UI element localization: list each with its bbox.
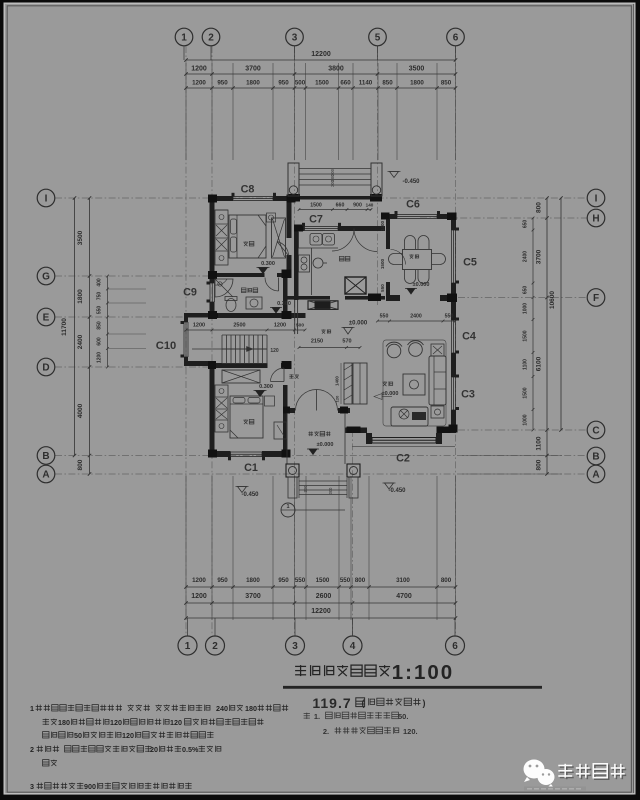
svg-text:1200: 1200 bbox=[192, 577, 206, 584]
column K11 bbox=[282, 361, 292, 369]
svg-text:C2: C2 bbox=[396, 453, 410, 465]
svg-text:2: 2 bbox=[208, 32, 214, 43]
svg-text:800: 800 bbox=[536, 202, 543, 213]
bedroom1 top wall right of window C8 bbox=[273, 196, 297, 201]
living room label bbox=[382, 381, 392, 386]
svg-text:500: 500 bbox=[296, 323, 304, 329]
bubble 6 bottom bbox=[446, 636, 465, 655]
column K10 bbox=[282, 311, 292, 319]
bubble F right bbox=[587, 289, 605, 307]
grid row E bbox=[55, 316, 190, 318]
left dim small segments line bbox=[107, 276, 109, 367]
bubble 5 top bbox=[369, 28, 387, 46]
living right wall seg1 bbox=[451, 302, 456, 320]
dining width dim line bbox=[378, 320, 456, 322]
svg-text:3700: 3700 bbox=[536, 249, 543, 264]
bay window C2 left stub bbox=[366, 433, 372, 444]
bedroom1 label bbox=[243, 241, 254, 246]
bedroom2 left wall bbox=[210, 366, 215, 456]
column K16 bbox=[447, 294, 457, 303]
detail callout bubble bbox=[281, 503, 295, 517]
stair bay bottom wall bbox=[184, 361, 212, 366]
grid row B bbox=[55, 455, 587, 457]
kitchen flue shaft bbox=[345, 277, 366, 294]
toilet bbox=[226, 299, 236, 312]
bubble G left bbox=[37, 267, 55, 285]
grid line 6 bbox=[455, 46, 457, 635]
bathroom bottom wall row E bbox=[210, 313, 306, 318]
bedroom2 bottom wall left of window C1 bbox=[210, 451, 231, 457]
svg-text:1000: 1000 bbox=[523, 414, 529, 425]
svg-text:C5: C5 bbox=[463, 257, 477, 269]
left dim total line 11700 bbox=[74, 198, 76, 456]
svg-text:1500: 1500 bbox=[310, 203, 322, 209]
bubble 2 top bbox=[202, 28, 220, 46]
grid row C bbox=[458, 429, 587, 431]
bubble 3 bottom bbox=[286, 636, 305, 655]
bubble I left bbox=[37, 189, 55, 207]
svg-text:800: 800 bbox=[536, 459, 543, 470]
bedroom2 wardrobe bbox=[215, 385, 228, 432]
living side table bottom bbox=[431, 406, 444, 418]
window C4 sill top bbox=[456, 318, 460, 321]
svg-text:300: 300 bbox=[330, 179, 335, 187]
logo text shadow bbox=[560, 765, 626, 779]
window C8 bbox=[233, 196, 273, 198]
window C8 sill left bbox=[232, 193, 235, 197]
svg-text:C9: C9 bbox=[183, 287, 197, 299]
bubble C right bbox=[587, 421, 605, 439]
rear porch left pillar bbox=[288, 163, 299, 196]
svg-text:3700: 3700 bbox=[245, 66, 261, 73]
column K14 bbox=[381, 213, 390, 220]
svg-text:3700: 3700 bbox=[245, 593, 261, 600]
window C1 bbox=[231, 451, 263, 453]
svg-text:120: 120 bbox=[170, 718, 182, 727]
svg-text:1500: 1500 bbox=[523, 387, 529, 398]
svg-text:650: 650 bbox=[523, 286, 529, 295]
bedroom2 label bbox=[243, 419, 254, 424]
svg-text:12200: 12200 bbox=[311, 608, 331, 615]
title underline thick bbox=[283, 686, 542, 689]
svg-text:3800: 3800 bbox=[328, 66, 344, 73]
svg-text:120: 120 bbox=[270, 348, 279, 354]
column K5 bbox=[208, 271, 217, 279]
outer black border frame bbox=[0, 0, 640, 3]
note line A bbox=[304, 713, 310, 719]
corridor pier wall bbox=[287, 313, 305, 318]
living coffee table bbox=[403, 374, 425, 395]
window C9 sill top bbox=[207, 282, 211, 285]
corridor wall at grid 3 bbox=[294, 300, 296, 334]
bedroom2 bed bbox=[230, 396, 263, 438]
svg-text:120: 120 bbox=[335, 395, 340, 402]
svg-text:800: 800 bbox=[355, 577, 366, 584]
svg-text:C7: C7 bbox=[309, 214, 323, 226]
svg-text:2400: 2400 bbox=[523, 251, 529, 262]
svg-text:C: C bbox=[592, 425, 599, 436]
grid line 4 bbox=[352, 430, 354, 635]
column K9 bbox=[282, 270, 292, 279]
svg-text:-0.450: -0.450 bbox=[241, 492, 259, 498]
bubble A right bbox=[587, 465, 605, 483]
bedroom1 top wall left of window C8 bbox=[210, 196, 234, 201]
svg-text:F: F bbox=[593, 293, 599, 304]
left dim line row2 bbox=[89, 198, 91, 474]
svg-text:C4: C4 bbox=[462, 331, 476, 343]
column K1 bbox=[208, 195, 217, 203]
bedroom2 dresser bbox=[274, 422, 287, 439]
column K12 bbox=[282, 450, 291, 458]
logo watermark bbox=[524, 787, 586, 791]
svg-text:(: ( bbox=[362, 698, 365, 708]
entry platform label bbox=[308, 431, 330, 436]
note 1 line 2 bbox=[43, 719, 57, 725]
window C5 bbox=[451, 230, 453, 283]
grid row D bbox=[55, 366, 215, 368]
kitchen inner dim line bbox=[299, 209, 371, 211]
kitchen stove bbox=[299, 255, 310, 272]
svg-text:2500: 2500 bbox=[233, 323, 245, 329]
bedroom1 right wall lower bbox=[287, 255, 292, 273]
title text bbox=[295, 665, 390, 676]
grid line 3 bbox=[294, 46, 296, 635]
svg-text:4000: 4000 bbox=[77, 403, 84, 418]
svg-text:1200: 1200 bbox=[97, 352, 103, 363]
living armchair 1 bbox=[387, 344, 401, 358]
svg-text:2: 2 bbox=[30, 745, 34, 754]
kitchen-dining wall lower bbox=[386, 282, 390, 296]
dining chairs top bbox=[405, 236, 416, 249]
svg-text:11700: 11700 bbox=[61, 318, 68, 336]
column K20 bbox=[340, 407, 348, 414]
bubble I right bbox=[587, 189, 605, 207]
svg-text:300: 300 bbox=[303, 485, 308, 493]
rear porch back edge bbox=[288, 196, 382, 200]
svg-text:-0.450: -0.450 bbox=[388, 488, 406, 494]
window C10 sill bottom bbox=[181, 355, 185, 358]
svg-text:D: D bbox=[42, 362, 49, 373]
svg-text:400: 400 bbox=[97, 278, 103, 287]
svg-text:900: 900 bbox=[353, 203, 362, 209]
kitchen-dining wall upper bbox=[386, 218, 390, 249]
window C6 sill left bbox=[395, 211, 398, 215]
svg-text:C8: C8 bbox=[241, 184, 255, 196]
svg-text:850: 850 bbox=[441, 80, 452, 87]
grid row F bbox=[458, 297, 587, 299]
right dim main line bbox=[546, 198, 548, 474]
stair side rail bbox=[222, 348, 267, 350]
stair bay left wall with window C10 bbox=[184, 313, 188, 322]
window C8 sill right bbox=[273, 193, 276, 197]
svg-text:3500: 3500 bbox=[77, 230, 84, 245]
column dining F junction bbox=[368, 294, 381, 302]
bedroom2 door bbox=[271, 368, 285, 382]
svg-text:1:100: 1:100 bbox=[392, 661, 454, 684]
stair treads bbox=[221, 335, 223, 364]
svg-text:3: 3 bbox=[292, 32, 298, 43]
svg-text:1500: 1500 bbox=[316, 577, 330, 584]
row D wall stair hall bbox=[210, 363, 268, 368]
svg-text:1: 1 bbox=[286, 504, 289, 510]
svg-text:4700: 4700 bbox=[396, 593, 412, 600]
dining right wall lower bbox=[451, 283, 456, 294]
svg-text:950: 950 bbox=[278, 80, 289, 87]
right dim total line 10600 bbox=[560, 198, 562, 430]
svg-text:850: 850 bbox=[97, 321, 103, 330]
svg-text:A: A bbox=[42, 469, 49, 480]
svg-text:1140: 1140 bbox=[359, 80, 373, 87]
svg-text:10600: 10600 bbox=[549, 291, 556, 309]
window C4 bbox=[451, 320, 453, 353]
front elevation -0.450 bbox=[385, 483, 394, 489]
bubble 3 top bbox=[286, 28, 304, 46]
svg-text:6: 6 bbox=[452, 641, 458, 652]
svg-text:1200: 1200 bbox=[191, 593, 207, 600]
window C5 sill top bbox=[456, 228, 460, 231]
column K18 bbox=[347, 427, 361, 434]
svg-text:1200: 1200 bbox=[191, 66, 207, 73]
entry cabinet dims bbox=[340, 363, 342, 404]
column K22 bbox=[210, 313, 218, 318]
living right wall seg2 bbox=[451, 353, 456, 377]
svg-text:0.300: 0.300 bbox=[277, 301, 291, 307]
svg-text:1: 1 bbox=[181, 32, 187, 43]
svg-text:650: 650 bbox=[523, 220, 529, 229]
svg-text:180: 180 bbox=[58, 718, 70, 727]
bubble 6 top bbox=[447, 28, 465, 46]
column K15 bbox=[447, 213, 457, 221]
svg-text:1.: 1. bbox=[314, 712, 320, 721]
svg-text:C3: C3 bbox=[461, 389, 475, 401]
svg-text:1100: 1100 bbox=[523, 359, 529, 370]
svg-text:2: 2 bbox=[212, 641, 218, 652]
svg-text:550: 550 bbox=[445, 314, 454, 320]
svg-text:2400: 2400 bbox=[410, 314, 422, 320]
living elevation triangle bbox=[374, 394, 382, 400]
kitchen pot bbox=[313, 258, 323, 268]
right dim small segments line bbox=[532, 218, 534, 430]
window C7 sill right bbox=[338, 223, 341, 227]
svg-text:1: 1 bbox=[185, 641, 191, 652]
svg-text:1400: 1400 bbox=[380, 220, 385, 231]
svg-text:4: 4 bbox=[350, 641, 356, 652]
svg-text:±0.000: ±0.000 bbox=[413, 282, 430, 288]
top dim extension lines bbox=[185, 63, 187, 160]
bedroom2 bedside table bbox=[265, 396, 275, 406]
svg-text:6: 6 bbox=[453, 32, 459, 43]
bubble B left bbox=[37, 447, 55, 465]
grid row H bbox=[420, 217, 587, 219]
bedroom2 bottom wall right of window C1 bbox=[262, 451, 289, 457]
bedroom1 wardrobe bbox=[215, 210, 228, 265]
svg-text:950: 950 bbox=[217, 80, 228, 87]
stair bay top wall bbox=[184, 313, 210, 318]
svg-text:300: 300 bbox=[328, 487, 333, 495]
bottom dim extension lines bbox=[185, 476, 187, 620]
svg-text:1200: 1200 bbox=[192, 80, 206, 87]
svg-text:B: B bbox=[42, 451, 49, 462]
svg-text:1500: 1500 bbox=[523, 330, 529, 341]
living right wall seg3 bbox=[451, 410, 456, 427]
logo wechat icon bbox=[524, 760, 555, 789]
grid line 2 bbox=[211, 46, 213, 635]
porch column left pad bbox=[288, 477, 297, 498]
svg-text:50: 50 bbox=[74, 731, 82, 740]
rear porch right pillar bbox=[371, 163, 382, 196]
svg-text:800: 800 bbox=[77, 459, 84, 470]
svg-text:): ) bbox=[423, 698, 426, 708]
window C3 bbox=[451, 377, 453, 410]
svg-text:-0.450: -0.450 bbox=[402, 179, 420, 185]
svg-text:1: 1 bbox=[30, 704, 34, 713]
living bottom wall left bbox=[345, 428, 367, 434]
bubble 4 bottom bbox=[343, 636, 362, 655]
top dim line row3 bbox=[186, 87, 456, 89]
svg-text:1500: 1500 bbox=[315, 80, 329, 87]
svg-text:120.: 120. bbox=[403, 727, 418, 736]
svg-text:±0.000: ±0.000 bbox=[382, 391, 399, 397]
svg-text:1500: 1500 bbox=[380, 258, 385, 269]
svg-text:1800: 1800 bbox=[77, 289, 84, 304]
dining top wall with window C6 bbox=[381, 214, 397, 219]
living plant bbox=[399, 409, 409, 419]
svg-text:750: 750 bbox=[97, 292, 103, 301]
kitchen counter top bbox=[298, 231, 300, 248]
entry cabinet bbox=[353, 363, 367, 404]
svg-text:550: 550 bbox=[380, 314, 389, 320]
column K8 bbox=[208, 450, 217, 458]
bedroom1 bedside table bbox=[267, 213, 276, 222]
logo text bbox=[558, 764, 624, 778]
living sofa bbox=[429, 356, 446, 405]
corridor duct box bbox=[308, 301, 338, 310]
svg-text:3500: 3500 bbox=[409, 66, 425, 73]
svg-text:1400: 1400 bbox=[335, 376, 340, 386]
grid row A bbox=[55, 473, 587, 475]
bathroom door bbox=[265, 278, 279, 292]
svg-text:1800: 1800 bbox=[246, 577, 260, 584]
interior dim row 1200 2500 1200 500 bbox=[186, 329, 305, 331]
bay window C2 glazing bbox=[372, 437, 436, 439]
dining right wall upper bbox=[451, 219, 456, 230]
entry platform right edge bbox=[344, 413, 346, 464]
dining chair left bbox=[389, 254, 402, 265]
svg-text:550: 550 bbox=[340, 577, 351, 584]
bedroom1 left wall lower bbox=[210, 302, 215, 317]
bay window C2 right stub bbox=[436, 433, 442, 444]
bubble A left bbox=[37, 465, 55, 483]
svg-text:1100: 1100 bbox=[536, 436, 543, 450]
porch column right bbox=[347, 464, 360, 477]
svg-text:1800: 1800 bbox=[246, 80, 260, 87]
grid line 5 bbox=[377, 46, 379, 305]
svg-text:600: 600 bbox=[97, 337, 103, 346]
entry steps bbox=[299, 480, 347, 482]
bubble B right bbox=[587, 447, 605, 465]
svg-text:I: I bbox=[595, 193, 598, 204]
svg-text:2.: 2. bbox=[323, 727, 329, 736]
bottom dim line total 12200 bbox=[186, 617, 456, 619]
hall restaurant label bbox=[321, 329, 330, 333]
svg-text:0.300: 0.300 bbox=[259, 384, 273, 390]
bedroom1 door bbox=[277, 242, 289, 256]
entry platform left edge bbox=[286, 413, 288, 464]
note 2 line 2 bbox=[43, 760, 57, 766]
svg-text:570: 570 bbox=[342, 339, 351, 345]
svg-text:1000: 1000 bbox=[523, 303, 529, 314]
svg-text:180: 180 bbox=[245, 704, 257, 713]
svg-text:2600: 2600 bbox=[316, 593, 332, 600]
top dim line total 12200 bbox=[186, 59, 456, 61]
kitchen top wall with window C7 bbox=[294, 226, 305, 231]
dining chairs bottom bbox=[405, 270, 416, 284]
porch column right pad bbox=[349, 477, 358, 498]
living TV bench bbox=[391, 407, 428, 426]
svg-text:3: 3 bbox=[292, 641, 298, 652]
bathroom right wall bbox=[283, 277, 288, 313]
note 1 line 3 bbox=[43, 732, 73, 738]
row F wall corridor top bbox=[287, 296, 330, 300]
balcony door dining bbox=[391, 250, 406, 265]
svg-text:±0.000: ±0.000 bbox=[317, 442, 334, 448]
bottom dim line row1 bbox=[186, 586, 456, 588]
svg-text:I: I bbox=[45, 193, 48, 204]
bubble 1 bottom bbox=[178, 636, 197, 655]
bathroom top wall bbox=[210, 273, 265, 277]
svg-text:900: 900 bbox=[84, 782, 96, 791]
svg-text:2400: 2400 bbox=[77, 334, 84, 349]
living side table top bbox=[431, 344, 444, 356]
entry double door bbox=[296, 390, 317, 411]
bottom dim line row2 bbox=[186, 602, 456, 604]
kitchen label bbox=[339, 256, 350, 261]
bathroom label bbox=[241, 288, 257, 293]
grid line 1 bbox=[185, 46, 187, 635]
bubble D left bbox=[37, 358, 55, 376]
window C4 sill bottom bbox=[456, 351, 460, 354]
svg-text:H: H bbox=[592, 213, 599, 224]
entry door wall left bbox=[285, 408, 295, 413]
rear porch elevation -0.450 bbox=[390, 172, 399, 178]
living TV bbox=[412, 412, 426, 420]
svg-text:1800: 1800 bbox=[410, 80, 424, 87]
right dim ext rows bbox=[462, 455, 562, 457]
svg-text:140: 140 bbox=[366, 203, 374, 208]
bubble H right bbox=[587, 209, 605, 227]
column K13 bbox=[294, 225, 303, 232]
window C3 sill top bbox=[456, 375, 460, 378]
window C9 bbox=[209, 283, 211, 302]
svg-text:20: 20 bbox=[150, 745, 158, 754]
dining bottom wall bbox=[386, 295, 400, 301]
svg-text:550: 550 bbox=[97, 306, 103, 315]
svg-text:850: 850 bbox=[382, 80, 393, 87]
svg-text:1200: 1200 bbox=[193, 323, 205, 329]
svg-text:C6: C6 bbox=[406, 199, 420, 211]
window C9 sill bottom bbox=[207, 300, 211, 303]
svg-text:C1: C1 bbox=[244, 462, 258, 474]
svg-text:240: 240 bbox=[216, 704, 228, 713]
svg-text:3100: 3100 bbox=[396, 577, 410, 584]
grid row I bbox=[55, 197, 587, 199]
hall label bbox=[289, 374, 299, 378]
svg-text:950: 950 bbox=[278, 577, 289, 584]
svg-text:B: B bbox=[592, 451, 599, 462]
column K17 bbox=[449, 425, 458, 433]
column K19 bbox=[437, 427, 451, 434]
window C1 sill left bbox=[228, 457, 231, 461]
